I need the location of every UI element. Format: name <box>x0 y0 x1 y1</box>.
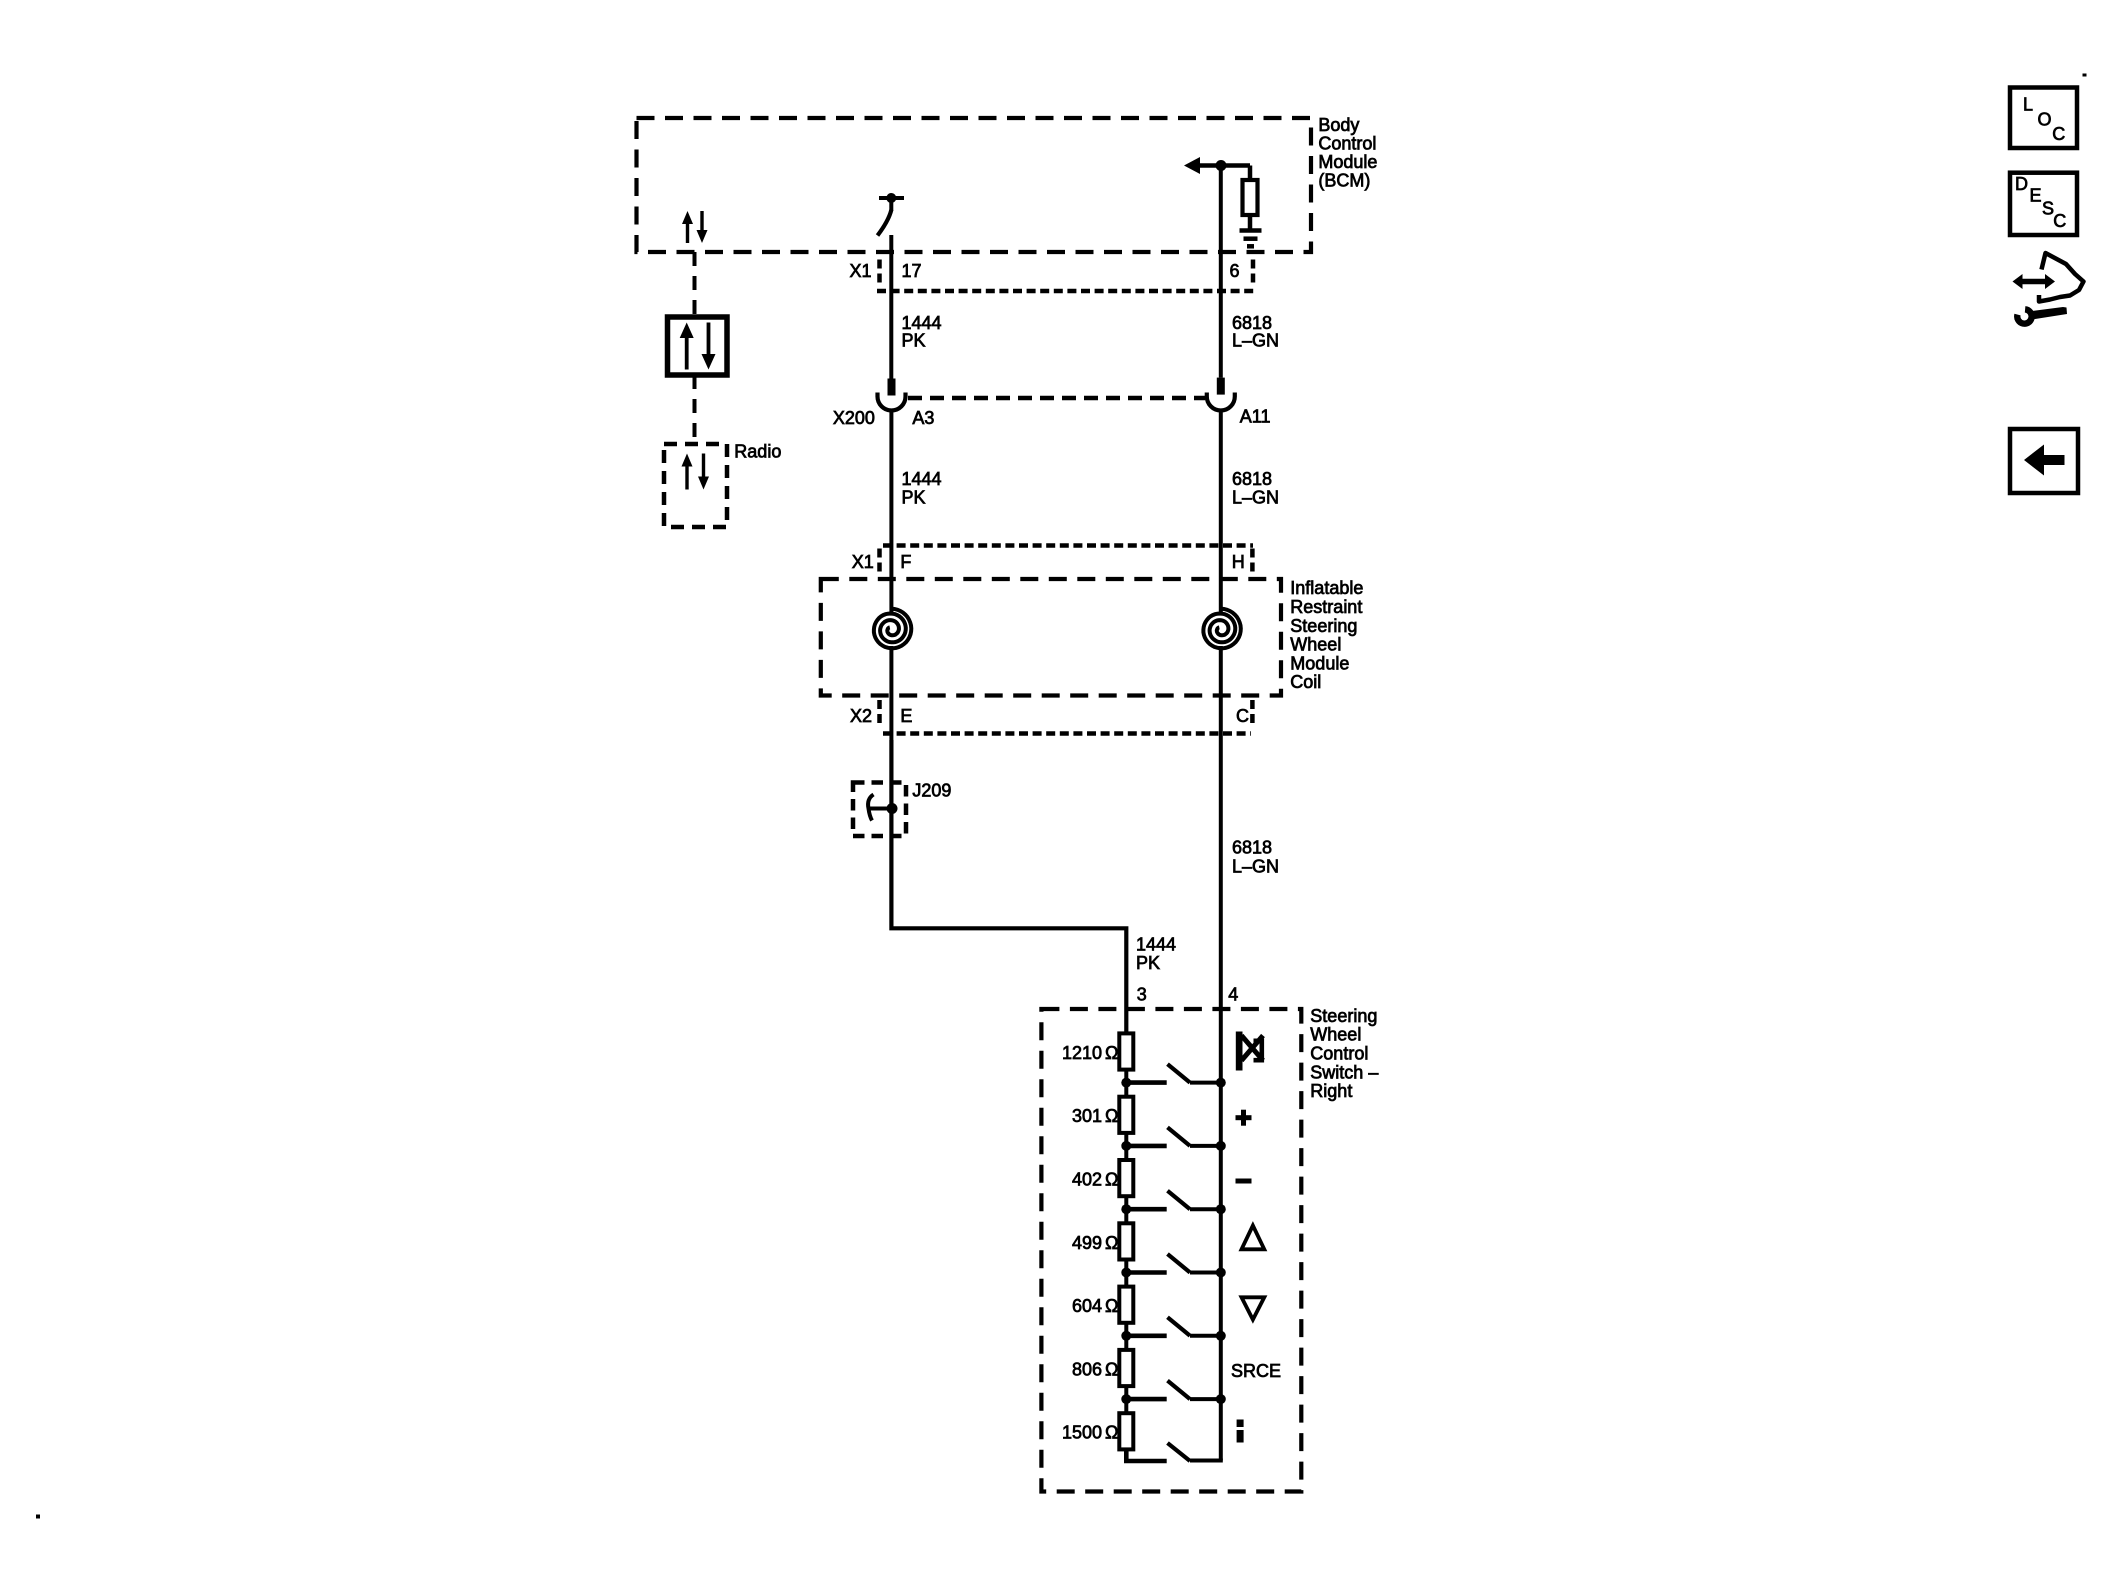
icon minus <box>1236 1179 1252 1184</box>
icon wiring repair (double arrow, outline arrow, wrench) <box>2013 253 2084 324</box>
wire pin17 down to X200 <box>889 235 893 379</box>
svg-text:Module: Module <box>1290 653 1349 673</box>
svg-text:X2: X2 <box>850 706 872 726</box>
wire below right coil down to switch box <box>1219 646 1223 1461</box>
connector X1 pin row below BCM : dotted ticks and line <box>877 260 1257 292</box>
wire label 1444 PK <box>902 313 942 351</box>
svg-text:H: H <box>1232 552 1245 572</box>
switch S6 contact <box>1126 1381 1221 1400</box>
svg-text:1210: 1210 <box>1062 1043 1102 1063</box>
resistor 301 ohm <box>1119 1097 1133 1133</box>
junction dot on bus row 2 <box>1216 1141 1226 1151</box>
Radio branch: dashed line from BCM <box>693 252 697 317</box>
svg-text:PK: PK <box>1136 953 1160 973</box>
junction dot on resistor chain row 1 <box>1121 1078 1131 1088</box>
svg-text:A3: A3 <box>912 408 934 428</box>
svg-text:17: 17 <box>902 261 922 281</box>
junction dot on bus row 6 <box>1216 1394 1226 1404</box>
svg-text:499: 499 <box>1072 1233 1102 1253</box>
svg-text:L–GN: L–GN <box>1232 488 1279 508</box>
junction dot on bus row 3 <box>1216 1204 1226 1214</box>
value label 1210 ohm <box>1062 1043 1119 1063</box>
wire label 6818 L-GN third <box>1232 838 1279 877</box>
wire label 1444 PK second <box>902 469 942 508</box>
coil spiral left <box>874 609 911 649</box>
icon back arrow box <box>2010 429 2078 493</box>
connector X2 row below coil module <box>880 700 1253 734</box>
svg-text:E: E <box>900 706 912 726</box>
svg-text:Restraint: Restraint <box>1290 597 1362 617</box>
svg-text:6: 6 <box>1230 261 1240 281</box>
bottom connection to bus <box>1190 1459 1223 1463</box>
switch S1 contact <box>1126 1064 1221 1083</box>
svg-text:Ω: Ω <box>1105 1043 1118 1063</box>
wire A11 down to coil <box>1219 411 1223 615</box>
ground symbol <box>1240 231 1262 247</box>
svg-text:Coil: Coil <box>1290 672 1321 692</box>
icon i <box>1237 1420 1244 1443</box>
svg-text:D: D <box>2015 174 2028 194</box>
wire label 1444 PK at bend <box>1136 935 1176 974</box>
Steering Wheel Control Switch Right dashed box <box>1041 1009 1301 1492</box>
resistor 1210 ohm <box>1119 1033 1133 1069</box>
arrow into BCM ground branch <box>1184 157 1250 174</box>
junction dot on bus row 1 <box>1216 1078 1226 1088</box>
resistor 806 ohm <box>1119 1350 1133 1386</box>
svg-text:L–GN: L–GN <box>1232 331 1279 351</box>
in-line connector X200 left pin A3 <box>878 379 906 411</box>
svg-text:Switch –: Switch – <box>1310 1062 1378 1082</box>
svg-text:Ω: Ω <box>1105 1359 1118 1379</box>
up/down arrows inside radio box <box>682 454 710 490</box>
wire below left coil to X2 row <box>889 646 893 740</box>
svg-text:Ω: Ω <box>1105 1106 1118 1126</box>
interface box solid <box>668 317 728 375</box>
coil spiral right <box>1203 609 1240 649</box>
svg-text:J209: J209 <box>912 781 951 801</box>
svg-text:Right: Right <box>1310 1081 1352 1101</box>
junction dot on resistor chain row 3 <box>1121 1204 1131 1214</box>
svg-text:Module: Module <box>1318 152 1377 172</box>
icon mute speaker <box>1236 1032 1263 1071</box>
svg-text:6818: 6818 <box>1232 469 1272 489</box>
svg-text:Ω: Ω <box>1105 1296 1118 1316</box>
value label 806 ohm <box>1072 1359 1119 1379</box>
icon plus <box>1236 1110 1252 1126</box>
junction dot on resistor chain row 2 <box>1121 1141 1131 1151</box>
svg-text:C: C <box>2053 211 2066 231</box>
svg-text:604: 604 <box>1072 1296 1102 1316</box>
svg-text:X1: X1 <box>852 552 874 572</box>
svg-text:C: C <box>1236 706 1249 726</box>
value label 499 ohm <box>1072 1233 1119 1253</box>
svg-text:Inflatable: Inflatable <box>1290 578 1363 598</box>
resistor inside BCM <box>1243 166 1258 231</box>
junction dot on resistor chain row 5 <box>1121 1331 1131 1341</box>
svg-text:O: O <box>2038 110 2052 130</box>
switch S3 contact <box>1126 1191 1221 1210</box>
svg-text:402: 402 <box>1072 1170 1102 1190</box>
icon DESC box <box>2010 173 2077 235</box>
bottom chain connection <box>1126 1450 1166 1461</box>
junction dot at BCM ground branch <box>1216 160 1227 171</box>
wire from X2-E down to J209 and bend to pin 3 <box>891 740 1126 1033</box>
in-line connector X200 right pin A11 <box>1207 378 1235 411</box>
wire chain segment <box>1124 1133 1128 1160</box>
svg-text:301: 301 <box>1072 1106 1102 1126</box>
junction dot J209 <box>887 803 898 814</box>
svg-text:PK: PK <box>902 331 926 351</box>
svg-text:X1: X1 <box>850 261 872 281</box>
bottom switch blade <box>1168 1443 1191 1461</box>
value label 301 ohm <box>1072 1106 1119 1126</box>
junction dot on resistor chain row 4 <box>1121 1268 1131 1278</box>
svg-text:Wheel: Wheel <box>1290 635 1341 655</box>
stray mark bottom left <box>36 1515 40 1519</box>
splice J209 dashed box <box>853 783 906 837</box>
svg-text:L: L <box>2023 95 2033 115</box>
wire A3 down to coil <box>889 411 893 615</box>
svg-text:1500: 1500 <box>1062 1423 1102 1443</box>
svg-text:E: E <box>2030 186 2042 206</box>
svg-text:L–GN: L–GN <box>1232 856 1279 876</box>
stray mark top right <box>2083 74 2087 77</box>
svg-text:4: 4 <box>1228 985 1238 1005</box>
connector X1 row above coil module <box>880 546 1254 575</box>
X200 dashed separator <box>908 396 1205 401</box>
svg-text:C: C <box>2052 124 2065 144</box>
svg-text:1444: 1444 <box>1136 935 1176 955</box>
coil module label <box>1290 578 1363 692</box>
svg-text:X200: X200 <box>833 408 875 428</box>
Body Control Module (BCM) dashed box <box>637 118 1312 252</box>
svg-text:A11: A11 <box>1240 407 1271 427</box>
icon triangle up <box>1242 1226 1265 1250</box>
svg-text:(BCM): (BCM) <box>1318 171 1370 191</box>
svg-text:SRCE: SRCE <box>1231 1361 1281 1381</box>
wire label 6818 L-GN second <box>1232 469 1279 508</box>
svg-text:Ω: Ω <box>1105 1423 1118 1443</box>
switch module label <box>1310 1006 1378 1101</box>
svg-text:PK: PK <box>902 488 926 508</box>
junction dot on resistor chain row 6 <box>1121 1394 1131 1404</box>
value label 402 ohm <box>1072 1170 1119 1190</box>
svg-text:Wheel: Wheel <box>1310 1025 1361 1045</box>
value label 604 ohm <box>1072 1296 1119 1316</box>
svg-text:3: 3 <box>1137 985 1147 1005</box>
wire chain segment <box>1124 1323 1128 1350</box>
svg-text:1444: 1444 <box>902 469 942 489</box>
Inflatable Restraint Steering Wheel Module Coil dashed box <box>821 579 1281 696</box>
value label 1500 ohm <box>1062 1423 1119 1443</box>
dashed line to radio <box>693 375 697 444</box>
svg-text:Steering: Steering <box>1310 1006 1377 1026</box>
resistor 499 ohm <box>1119 1223 1133 1259</box>
svg-text:806: 806 <box>1072 1359 1102 1379</box>
wire chain segment <box>1124 1260 1128 1287</box>
wire chain segment <box>1124 1386 1128 1413</box>
switch contact inside BCM <box>878 193 905 236</box>
resistor 402 ohm <box>1119 1160 1133 1196</box>
svg-text:S: S <box>2042 199 2054 219</box>
up/down arrows inside interface box <box>680 323 716 370</box>
Radio dashed box <box>664 444 727 527</box>
wire label 6818 L-GN <box>1232 313 1279 351</box>
icon LOC box <box>2010 88 2077 149</box>
switch S2 contact <box>1126 1127 1221 1146</box>
svg-text:6818: 6818 <box>1232 838 1272 858</box>
svg-text:Ω: Ω <box>1105 1233 1118 1253</box>
resistor 1500 ohm <box>1119 1413 1133 1449</box>
wire chain segment <box>1124 1070 1128 1097</box>
resistor 604 ohm <box>1119 1287 1133 1323</box>
BCM label <box>1318 115 1377 191</box>
svg-text:Control: Control <box>1318 134 1376 154</box>
icon triangle down <box>1242 1297 1265 1319</box>
svg-text:Radio: Radio <box>734 442 781 462</box>
wire chain segment <box>1124 1196 1128 1223</box>
svg-text:Body: Body <box>1318 115 1359 135</box>
switch S5 contact <box>1126 1317 1221 1336</box>
svg-text:F: F <box>900 552 911 572</box>
svg-text:Ω: Ω <box>1105 1170 1118 1190</box>
up/down arrow pair inside BCM <box>682 211 708 243</box>
svg-text:Steering: Steering <box>1290 616 1357 636</box>
switch S4 contact <box>1126 1254 1221 1273</box>
junction dot on bus row 5 <box>1216 1331 1226 1341</box>
svg-text:Control: Control <box>1310 1044 1368 1064</box>
junction dot on bus row 4 <box>1216 1268 1226 1278</box>
wire pin6 from dot down through connector <box>1219 166 1223 378</box>
splice symbol <box>868 795 892 821</box>
